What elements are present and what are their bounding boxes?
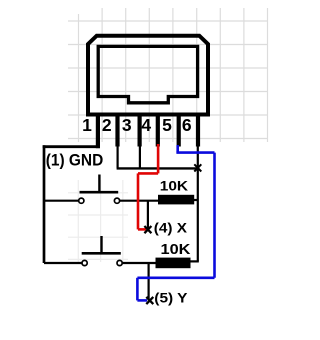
pushbutton SW1 left contact circle	[79, 198, 84, 203]
pin 6 stub	[196, 117, 200, 147]
resistor R1 right lead	[194, 199, 198, 201]
svg-text:6: 6	[182, 115, 192, 135]
red wire long vertical	[137, 173, 140, 229]
svg-text:(1) GND: (1) GND	[46, 151, 104, 170]
svg-text:1: 1	[82, 115, 92, 135]
pushbutton SW2 left contact circle	[82, 260, 87, 265]
svg-text:5: 5	[162, 115, 172, 135]
svg-text:(5) Y: (5) Y	[154, 290, 188, 306]
wire left GND rail vertical	[43, 145, 46, 263]
pushbutton SW2 left lead	[44, 262, 82, 264]
svg-text:10K: 10K	[160, 177, 188, 193]
wire pin2 drop	[116, 145, 118, 168]
svg-text:4: 4	[141, 115, 151, 135]
pushbutton SW1 right contact circle	[114, 198, 119, 203]
wire pin1 horizontal to left rail	[43, 145, 100, 148]
resistor R2 body	[156, 258, 191, 269]
red wire upper horizontal	[138, 172, 158, 175]
blue wire short vertical	[136, 278, 139, 301]
pushbutton SW2 right contact circle	[117, 260, 122, 265]
blue wire right vertical	[213, 153, 216, 278]
resistor R1 body	[158, 195, 194, 205]
node (4) X mark	[144, 226, 151, 233]
pin 4 stub	[156, 117, 160, 147]
pin 5 stub	[177, 117, 181, 147]
blue wire top horizontal	[176, 151, 214, 154]
svg-text:10K: 10K	[161, 242, 191, 258]
pushbutton SW1 right lead to R1	[120, 200, 158, 202]
pin 3 stub	[138, 117, 142, 147]
connector J1 outer shell	[88, 36, 208, 115]
pushbutton SW1 actuator stem	[98, 175, 100, 193]
wire pin3 drop	[139, 145, 141, 168]
pin 1 stub	[96, 117, 100, 149]
red wire bottom horizontal to node X	[138, 228, 146, 231]
junction X at bus and pin6 line	[194, 164, 201, 171]
connector J1 inner opening with keying notch	[98, 46, 197, 102]
blue wire lower horizontal	[137, 276, 214, 279]
svg-text:2: 2	[102, 115, 112, 135]
wire bus pins2-3 to pin6 line	[117, 167, 198, 169]
pushbutton SW1 left lead	[44, 200, 78, 202]
wire stub from R2 lead down to node Y	[148, 263, 150, 301]
svg-text:3: 3	[122, 115, 132, 135]
pushbutton SW2 actuator stem	[100, 236, 102, 253]
svg-text:(4) X: (4) X	[154, 219, 188, 235]
blue wire pin5 vertical	[176, 145, 179, 153]
pin 2 stub	[115, 117, 119, 147]
pushbutton SW2 right lead to R2	[123, 262, 156, 264]
pushbutton SW1 actuator bar	[80, 191, 119, 194]
node (5) Y mark	[146, 297, 153, 304]
red wire pin4 vertical	[157, 144, 160, 173]
wire pin6 vertical line	[197, 145, 199, 261]
blue wire bottom horizontal to node Y	[137, 299, 147, 302]
pushbutton SW2 actuator bar	[82, 252, 121, 255]
wire stub from R1 lead down to node X	[147, 201, 149, 230]
resistor R2 right lead	[191, 260, 199, 262]
